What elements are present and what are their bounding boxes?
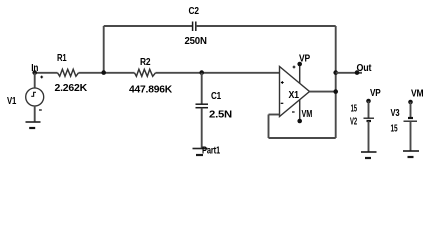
ground of V2	[361, 151, 377, 153]
feedback bottom wire	[269, 137, 336, 139]
node In dot	[32, 70, 37, 75]
node Out terminal	[355, 70, 360, 75]
svg-text:C2: C2	[189, 6, 200, 17]
svg-text:V2: V2	[350, 116, 357, 127]
svg-text:Part1: Part1	[202, 146, 220, 157]
pin VM of op-amp	[299, 100, 301, 122]
junction output	[333, 89, 338, 94]
wire V2 top	[368, 101, 370, 118]
capacitor C1	[196, 103, 209, 105]
wire In down to V1	[34, 73, 36, 88]
minus sign of V1	[39, 109, 42, 111]
svg-text:In: In	[31, 63, 38, 74]
op-amp output wire	[310, 91, 336, 93]
pin VP of op-amp	[299, 64, 301, 84]
wire right vertical feedback	[335, 26, 337, 138]
node B junction after R2	[199, 70, 204, 75]
svg-text:2.5N: 2.5N	[209, 110, 232, 121]
node VP of V2	[366, 99, 371, 104]
feedback left vertical	[268, 115, 270, 139]
feedback stub to inverting input	[269, 114, 280, 116]
wire V2 to ground	[368, 121, 370, 152]
wire node B down to C1	[201, 73, 203, 104]
plus sign at VP pin	[293, 66, 296, 69]
svg-text:V3: V3	[391, 108, 400, 119]
minus sign inside op-amp	[281, 102, 284, 104]
wire C1 down to ground	[201, 108, 203, 149]
svg-text:VP: VP	[370, 88, 381, 99]
wire node A to R2	[104, 72, 135, 74]
capacitor C2	[192, 22, 194, 32]
svg-text:2.262K: 2.262K	[55, 83, 89, 94]
wire V3 to ground	[410, 121, 412, 151]
svg-text:15: 15	[391, 123, 398, 134]
source V1	[26, 88, 44, 106]
svg-text:447.896K: 447.896K	[129, 85, 173, 96]
op-amp X1	[280, 67, 310, 117]
plus sign of V1	[40, 76, 43, 79]
wire R1 to node A	[79, 72, 104, 74]
svg-text:VM: VM	[302, 109, 313, 120]
battery V3	[408, 117, 413, 119]
svg-text:R2: R2	[140, 57, 151, 68]
wire Out stub	[336, 72, 362, 74]
junction Out tee	[333, 70, 338, 75]
resistor R2	[135, 69, 156, 76]
wire R2 to op-amp input	[156, 72, 280, 74]
svg-text:Out: Out	[357, 63, 373, 74]
svg-text:C1: C1	[211, 91, 222, 102]
svg-text:V1: V1	[7, 96, 17, 107]
svg-text:250N: 250N	[185, 36, 207, 47]
wire V1 to ground	[34, 106, 36, 122]
node A junction dot	[101, 70, 106, 75]
svg-text:X1: X1	[289, 90, 300, 101]
svg-text:R1: R1	[57, 53, 67, 64]
minus sign at VM pin	[292, 111, 295, 113]
plus sign inside op-amp	[281, 81, 284, 84]
battery V2	[364, 117, 375, 119]
waveform symbol of V1	[31, 92, 36, 96]
ground of V1	[26, 121, 41, 123]
svg-text:VP: VP	[299, 53, 310, 64]
ground of V3	[403, 150, 419, 152]
resistor R1	[58, 69, 79, 76]
node VM of V3	[408, 100, 413, 105]
wire In to R1	[35, 72, 58, 74]
wire V3 top	[410, 102, 412, 117]
ground of C1	[193, 148, 208, 150]
svg-text:15: 15	[351, 103, 358, 114]
wire node A up	[103, 26, 105, 73]
wire C2 right to corner	[196, 25, 336, 27]
svg-text:VM: VM	[411, 89, 423, 100]
wire top to C2 left	[104, 25, 193, 27]
